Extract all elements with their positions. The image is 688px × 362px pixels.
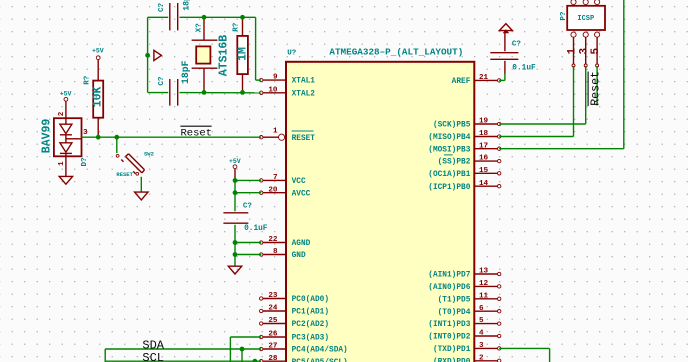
svg-text:XTAL1: XTAL1 [292,78,316,86]
svg-text:2: 2 [58,111,66,116]
svg-text:PC1(AD1): PC1(AD1) [292,309,329,317]
pin 27 (PC4/SDA) of U? [260,343,348,355]
ground under SW2 [135,192,148,200]
svg-text:PC3(AD3): PC3(AD3) [292,335,329,343]
svg-text:1: 1 [566,48,578,55]
pin 10 (XTAL2) of U? [260,86,316,98]
svg-text:9: 9 [273,74,278,82]
wire AREF pin 21 to C? [499,61,505,81]
svg-text:+5V: +5V [60,90,72,97]
wire SCL net [105,360,261,362]
pin 23 (PC0/AD0) of U? [260,292,330,304]
pin 22 (AGND) of U? [260,236,311,248]
pin 12 (AIN0/PD6) of U? [428,280,501,292]
power arrow above AREF C? [499,24,512,34]
svg-text:11: 11 [479,292,489,300]
node SDA junction [240,347,245,352]
svg-text:PC2(AD2): PC2(AD2) [292,321,329,329]
svg-text:Reset: Reset [181,127,213,139]
svg-text:(RXD)PD0: (RXD)PD0 [433,358,471,362]
power +5V above VCC rail [229,158,241,169]
node SCL junction [253,359,258,362]
node VCC junction [233,178,238,183]
pin 9 (XTAL1) of U? [260,74,316,86]
svg-text:(AIN0)PD6: (AIN0)PD6 [428,284,470,292]
value ATMEGA328-P_(ALT_LAYOUT) [329,46,463,57]
diode D? BAV99 dual [40,111,88,176]
svg-text:25: 25 [268,317,278,325]
svg-text:(T0)PD4: (T0)PD4 [438,309,471,317]
capacitor C? 0.1uF (VCC decoupling) [223,202,267,233]
node reset junction at R? 10K [96,135,101,140]
pin 3 (TXD/PD1) of U? [433,342,501,354]
wire to AVCC pin 20 [235,192,261,194]
svg-text:4: 4 [479,330,484,338]
svg-text:XTAL2: XTAL2 [292,90,316,98]
crystal X? ATS16B [192,17,231,92]
wire +5V rail lower [234,225,236,266]
wire PC3 branch [230,337,261,362]
svg-text:24: 24 [268,305,278,313]
svg-text:(TXD)PD1: (TXD)PD1 [433,346,471,354]
pin 21 (AREF) of U? [452,74,501,86]
svg-text:27: 27 [268,343,278,351]
wire reset net to U? pin 1 [98,136,261,138]
pin 24 (PC1/AD1) of U? [260,305,330,317]
svg-text:6: 6 [479,305,484,313]
svg-text:12: 12 [479,280,489,288]
svg-text:0.1uF: 0.1uF [512,65,536,73]
pin 15 (OC1A/PB1) of U? [428,167,501,179]
pin 25 (PC2/AD2) of U? [260,317,330,329]
svg-text:(T1)PD5: (T1)PD5 [438,296,471,304]
svg-text:19: 19 [479,118,489,126]
svg-text:20: 20 [268,186,278,194]
wire SDA branch down [241,349,243,362]
svg-text:ATMEGA328–P_(ALT_LAYOUT): ATMEGA328–P_(ALT_LAYOUT) [329,46,463,57]
svg-text:17: 17 [479,142,489,150]
wire ICSP pin1 (MISO) to U? pin 18 [499,66,573,137]
svg-text:18pF: 18pF [180,60,191,84]
svg-text:22: 22 [268,236,278,244]
svg-text:18: 18 [479,130,489,138]
svg-text:SCL: SCL [142,351,164,362]
wire D? pin3 to reset net [82,136,99,138]
svg-text:8: 8 [273,248,278,256]
svg-text:ATS16B: ATS16B [218,35,231,77]
capacitor C? 18pF (top) [158,0,191,30]
hierarchical pin arrow on left rail [154,50,162,60]
pin 17 (MOSI/PB3) of U? [428,142,501,154]
label Reset (overbar) [180,126,212,139]
svg-text:14: 14 [479,180,489,188]
svg-text:(OC1A)PB1: (OC1A)PB1 [428,171,470,179]
label SCL [142,351,164,362]
pin 18 (MISO/PB4) of U? [428,130,501,142]
svg-text:1M: 1M [237,47,250,61]
node 1M bottom junction [240,90,245,95]
svg-text:10K: 10K [92,86,105,107]
wire crystal top rail [148,17,262,80]
wire ICSP pin3 (SCK) to U? pin 19 [499,66,586,124]
svg-text:P?: P? [560,11,568,21]
pin 4 (INT0/PD2) of U? [428,330,501,342]
pin 16 (SS/PB2) of U? [438,155,501,167]
svg-text:RESET: RESET [292,135,316,143]
switch SW2 RESET [116,137,154,192]
svg-text:15: 15 [479,167,489,175]
svg-text:R?: R? [84,75,92,85]
wire MOSI from top to U? pin 17 [499,0,624,149]
svg-text:AGND: AGND [292,240,311,248]
svg-text:D?: D? [81,157,89,167]
svg-text:(SS)PB2: (SS)PB2 [438,159,471,167]
svg-text:RESET: RESET [116,171,133,178]
svg-text:(MOSI)PB3: (MOSI)PB3 [428,146,470,154]
pin 20 (AVCC) of U? [260,186,311,198]
pin 5 (INT1/PD3) of U? [428,317,501,329]
wire to GND pin 8 [235,254,261,256]
svg-text:28: 28 [268,355,278,362]
svg-text:3: 3 [83,129,88,137]
node crystal left junction [145,53,150,58]
svg-text:GND: GND [292,252,306,260]
resistor R? 1M [233,17,250,92]
svg-text:1: 1 [273,128,278,136]
pin 11 (T1/PD5) of U? [438,292,501,304]
pin 28 (PC5/SCL) of U? [260,355,348,362]
wire ICSP pin5 reset stub [596,66,598,106]
power +5V above R? 10K [92,47,104,80]
svg-text:BAV99: BAV99 [40,119,53,154]
svg-text:26: 26 [268,331,278,339]
wire crystal bottom rail [148,92,262,94]
svg-text:PC0(AD0): PC0(AD0) [292,296,329,304]
svg-text:SW2: SW2 [144,151,154,158]
wire to VCC pin 7 [235,179,261,181]
ground under D? [59,176,72,184]
svg-text:U?: U? [287,49,297,57]
pin 1 (RESET) of U? [260,128,316,143]
pin 6 (T0/PD4) of U? [438,305,501,317]
wire to AGND pin 22 [235,242,261,244]
svg-text:21: 21 [479,74,489,82]
node AVCC junction [233,190,238,195]
svg-text:(MISO)PB4: (MISO)PB4 [428,134,470,142]
pin 7 (VCC) of U? [260,174,306,186]
svg-text:(INT1)PD3: (INT1)PD3 [428,321,470,329]
svg-text:5: 5 [590,48,602,55]
pin 14 (ICP1/PB0) of U? [428,180,501,192]
svg-text:(SCK)PB5: (SCK)PB5 [433,122,471,130]
node GND junction [233,252,238,257]
node 1M top junction [240,15,245,20]
svg-text:3: 3 [479,342,484,350]
svg-text:AVCC: AVCC [292,190,311,198]
reference U? [287,49,297,57]
pin 19 (SCK/PB5) of U? [433,118,501,130]
node reset junction at SW2 [114,135,119,140]
svg-text:C?: C? [158,76,166,86]
svg-text:(AIN1)PD7: (AIN1)PD7 [428,272,470,280]
svg-text:5: 5 [479,317,484,325]
resistor R? 10K [84,75,105,137]
svg-text:PC4(AD4/SDA): PC4(AD4/SDA) [292,347,348,355]
svg-text:2: 2 [479,354,484,362]
label Reset (vertical, overbar) [588,71,602,106]
node crystal bottom junction [202,90,207,95]
svg-text:10: 10 [268,86,278,94]
svg-text:+5V: +5V [92,47,104,54]
ground under VCC rail [228,266,241,274]
connector P? ICSP [560,0,605,67]
svg-text:C?: C? [158,2,166,12]
svg-text:1: 1 [58,161,66,166]
svg-text:C?: C? [243,202,253,210]
pin 13 (AIN1/PD7) of U? [428,268,501,280]
svg-text:C?: C? [512,41,522,49]
wire SDA net [105,349,261,362]
power +5V above D? [60,90,72,118]
svg-text:0.1uF: 0.1uF [244,225,268,233]
svg-text:ICSP: ICSP [577,15,594,23]
wire +5V rail upper [234,169,236,212]
svg-text:AREF: AREF [452,78,471,86]
svg-text:7: 7 [273,174,278,182]
svg-text:13: 13 [479,268,489,276]
node AGND junction [233,240,238,245]
label SDA [142,339,164,353]
svg-text:3: 3 [579,48,591,55]
wire TXD from U? pin 3 [499,348,549,362]
pin 26 (PC3/AD3) of U? [260,331,330,343]
svg-text:16: 16 [479,155,489,163]
svg-text:(INT0)PD2: (INT0)PD2 [428,334,470,342]
capacitor C? 18pF (bottom) [158,60,191,105]
capacitor C? 0.1uF (AREF) [490,31,536,73]
node crystal top junction [202,15,207,20]
svg-text:Reset: Reset [589,71,602,106]
svg-text:VCC: VCC [292,178,306,186]
svg-text:+5V: +5V [229,158,241,165]
pin 2 (RXD/PD0) of U? [433,354,501,362]
svg-text:R?: R? [233,22,241,32]
IC U? ATMEGA328-P microcontroller body [286,62,474,362]
wire crystal left rail [147,17,149,92]
svg-text:23: 23 [268,292,278,300]
svg-text:X?: X? [195,23,203,33]
pin 8 (GND) of U? [260,248,306,260]
svg-text:(ICP1)PB0: (ICP1)PB0 [428,184,470,192]
svg-text:18pF: 18pF [182,0,191,11]
